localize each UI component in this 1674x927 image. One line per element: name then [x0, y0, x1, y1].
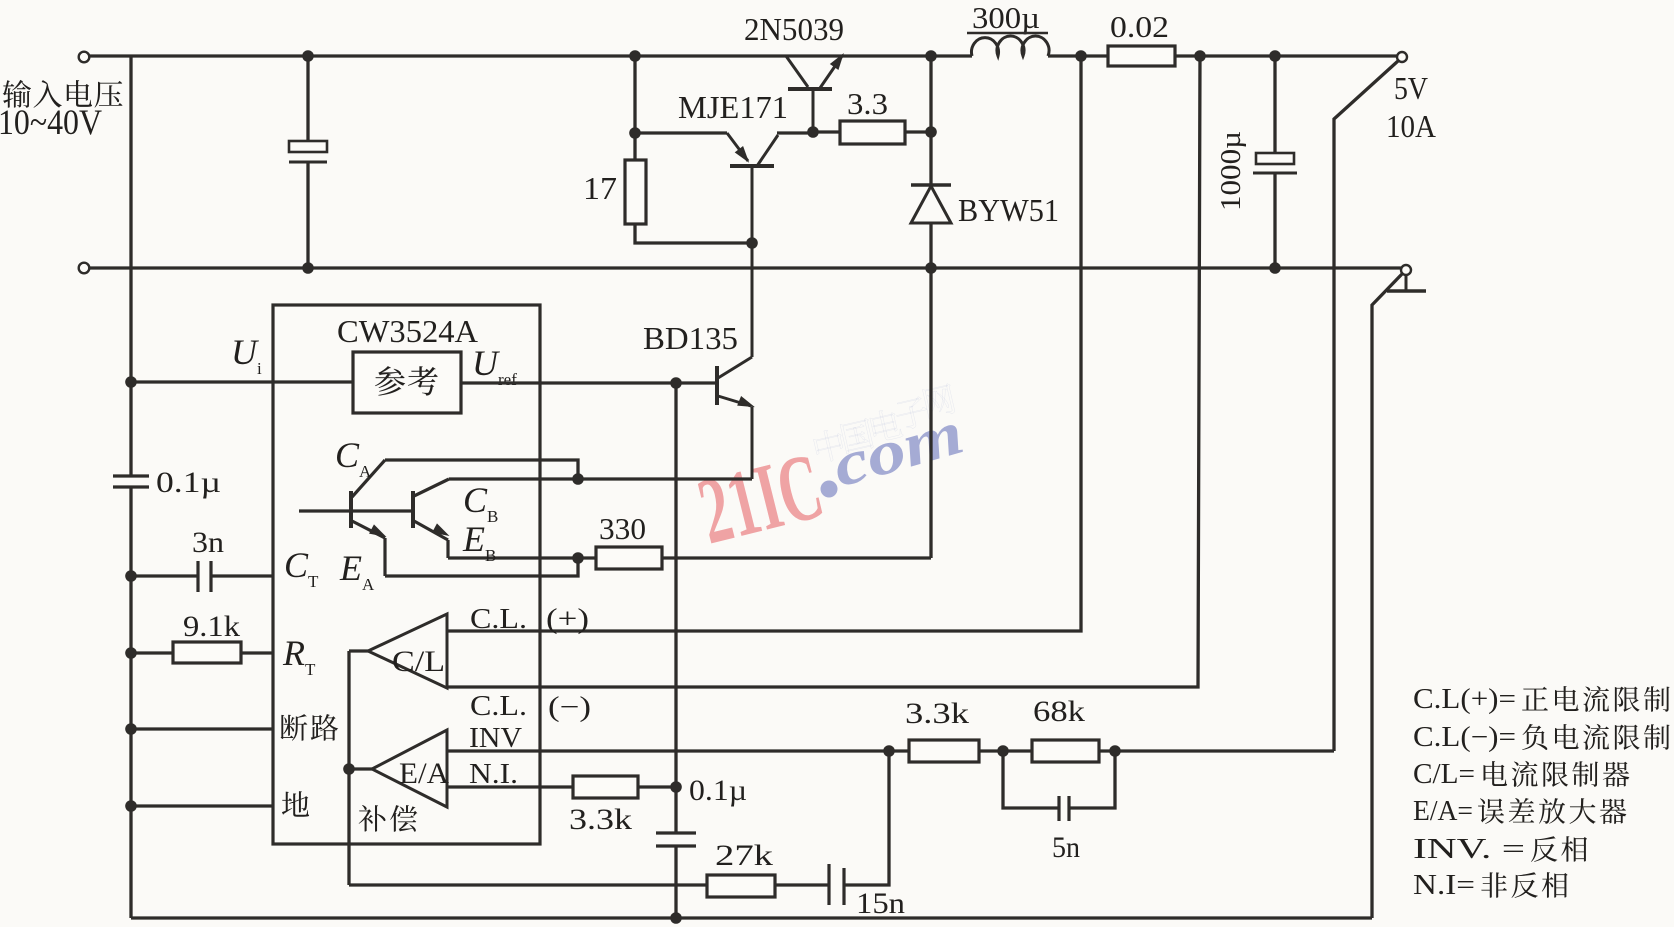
- svg-text:E/A=: E/A=: [1413, 796, 1473, 827]
- junction N.I. to Uref divider: [670, 781, 682, 793]
- resistor 3.3 (base-emitter): [813, 86, 931, 144]
- capacitor 1000u (output electrolytic): [1215, 56, 1297, 268]
- wire bottom return to output ground: [131, 916, 1372, 919]
- junction shunt right / CL- sense: [1194, 50, 1206, 62]
- resistor 3.3k (INV divider): [909, 740, 979, 762]
- transistor BD135: [717, 245, 757, 479]
- svg-text:3.3: 3.3: [847, 86, 888, 121]
- diode BYW51 (freewheel): [911, 185, 1059, 268]
- label 5V 10A: [1386, 70, 1436, 144]
- svg-text:3n: 3n: [192, 526, 224, 559]
- junction comp to INV: [883, 745, 895, 757]
- wire CA collector run: [385, 460, 578, 479]
- svg-text:300µ: 300µ: [972, 0, 1040, 35]
- wire N.I. net: [447, 785, 573, 788]
- svg-text:68k: 68k: [1033, 695, 1085, 728]
- svg-text:C.L.: C.L.: [470, 604, 527, 635]
- junction ground pin on left rail: [125, 800, 137, 812]
- svg-text:MJE171: MJE171: [678, 89, 788, 125]
- wire switch node vertical: [929, 56, 932, 185]
- svg-text:(+): (+): [546, 604, 589, 635]
- wire bottom 0V rail: [89, 266, 1402, 269]
- svg-text:330: 330: [599, 511, 646, 546]
- junction E/A output: [343, 763, 355, 775]
- junction 1000u top: [1269, 50, 1281, 62]
- resistor 0.02 (current shunt): [1108, 9, 1175, 66]
- svg-text:C/L=: C/L=: [1413, 759, 1475, 790]
- pin 地 (ground) wire: [131, 791, 309, 817]
- junction shutdown on left rail: [125, 723, 137, 735]
- inductor 300u: [967, 0, 1049, 56]
- wire diode node below rail to 330: [929, 268, 932, 558]
- wire CA/CB collectors to BD135 emitter: [578, 477, 752, 480]
- junction CT on left rail: [125, 570, 137, 582]
- wire left vertical from + rail to Ui: [129, 56, 132, 476]
- junction RT on left rail: [125, 647, 137, 659]
- junction 3.3k/68k: [997, 745, 1009, 757]
- output ground terminal: [1401, 265, 1411, 275]
- svg-text:3.3k: 3.3k: [569, 803, 632, 836]
- svg-text:(−): (−): [548, 692, 591, 723]
- transistor 2N5039 (main switch): [786, 50, 848, 132]
- resistor 3.3k (N.I.): [569, 776, 676, 836]
- wire ground return diagonal: [1372, 274, 1402, 918]
- internal transistor A: [299, 460, 413, 576]
- svg-text:27k: 27k: [715, 839, 773, 872]
- junction switch node on top rail: [925, 50, 937, 62]
- svg-text:17: 17: [583, 170, 617, 206]
- svg-text:0.02: 0.02: [1110, 9, 1169, 44]
- capacitor 3n (timing): [192, 526, 274, 592]
- svg-text:C.L.: C.L.: [470, 691, 527, 722]
- junction 17-wire / BD135 collector: [746, 237, 758, 249]
- capacitor 0.1u (soft start): [656, 833, 696, 846]
- junction 3.3 right / switch node: [925, 126, 937, 138]
- junction top rail at x635: [629, 50, 641, 62]
- input + terminal: [79, 52, 90, 63]
- svg-text:INV. =: INV. =: [1413, 834, 1525, 865]
- wire left vertical below 0.1u to bottom: [129, 487, 132, 918]
- svg-text:BD135: BD135: [643, 320, 738, 356]
- IC U1 CW3524A box: [273, 305, 540, 844]
- input voltage label 输入电压 10~40V: [0, 80, 122, 142]
- junction 68k right: [1109, 745, 1121, 757]
- junction MJE171 emitter / 2N5039 base / 3.3: [807, 126, 819, 138]
- wire 0.1u to bottom return: [674, 846, 677, 918]
- wire INV net: [447, 749, 1334, 752]
- svg-text:10~40V: 10~40V: [0, 102, 102, 142]
- label 补偿 (compensation): [359, 805, 386, 832]
- wire resistor 17 bottom to BD135 collector node: [635, 224, 752, 243]
- transistor MJE171 (PNP driver): [727, 133, 813, 357]
- junction EB/EA: [572, 552, 584, 564]
- junction inductor out / CL+ sense: [1075, 50, 1087, 62]
- resistor 68k (feedback): [1032, 740, 1099, 762]
- capacitor 5n (across 68k): [1003, 751, 1115, 864]
- resistor 27k (comp): [707, 839, 829, 897]
- svg-text:C.L(+)=: C.L(+)=: [1413, 684, 1516, 715]
- capacitor C-in (input electrolytic): [289, 56, 327, 268]
- wire EA emitter run: [385, 558, 578, 576]
- svg-text:C.L(−)=: C.L(−)=: [1413, 722, 1516, 753]
- wire CB collector run: [449, 477, 578, 480]
- pin 断路 (shutdown) wire: [131, 714, 338, 741]
- amplifier C/L (current limiter): [368, 614, 447, 688]
- svg-text:CW3524A: CW3524A: [337, 313, 478, 349]
- pin CT wire: [131, 574, 198, 577]
- wire Uref vertical divider: [674, 383, 677, 833]
- junction input cap bottom: [302, 262, 314, 274]
- svg-text:0.1µ: 0.1µ: [689, 774, 747, 807]
- junction Ui on left vertical: [125, 376, 137, 388]
- amplifier E/A (error amplifier): [372, 730, 447, 807]
- junction diode anode on 0V rail: [925, 262, 937, 274]
- svg-text:15n: 15n: [856, 887, 905, 920]
- svg-text:C/L: C/L: [392, 645, 445, 678]
- wire drop to resistor 17: [633, 56, 636, 160]
- ground symbol: [1387, 275, 1426, 291]
- wire E/A output stub: [349, 767, 372, 770]
- wire Ui input to reference: [131, 380, 353, 383]
- svg-text:BYW51: BYW51: [958, 192, 1059, 228]
- svg-text:2N5039: 2N5039: [744, 11, 844, 47]
- svg-text:3.3k: 3.3k: [905, 697, 969, 730]
- wire to MJE171: [635, 131, 727, 134]
- watermark 21IC.com / Chinese electronics net logo: [688, 383, 970, 564]
- svg-text:E/A: E/A: [399, 757, 449, 790]
- svg-text:5V: 5V: [1394, 70, 1428, 106]
- label C.L. (+): [470, 604, 589, 635]
- wire comp to 27k: [349, 883, 707, 886]
- resistor 9.1k (timing): [131, 610, 274, 663]
- wire output sense diagonal to INV divider: [1334, 61, 1398, 751]
- wire C/L output to comp rail: [349, 649, 368, 652]
- wire comp vertical: [347, 651, 350, 885]
- wire top rail (inductor to output): [1048, 54, 1399, 57]
- wire C.L.(-) sense from shunt right: [447, 56, 1200, 687]
- output 5V terminal: [1397, 52, 1407, 62]
- capacitor 15n (comp): [829, 751, 905, 920]
- wire EB emitter run: [448, 556, 579, 559]
- junction bottom return: [670, 912, 682, 924]
- resistor 17: [583, 160, 646, 224]
- svg-text:1000µ: 1000µ: [1215, 131, 1247, 211]
- legend current-limit definitions: [1413, 684, 1670, 901]
- label C.L. (-): [470, 691, 591, 723]
- svg-text:9.1k: 9.1k: [183, 610, 240, 643]
- svg-text:10A: 10A: [1386, 108, 1436, 144]
- svg-text:N.I=: N.I=: [1413, 870, 1475, 901]
- resistor 330 (emitters to 0V): [579, 511, 931, 569]
- reference block 参考: [353, 352, 461, 413]
- junction 1000u bottom: [1269, 262, 1281, 274]
- junction input cap top: [302, 50, 314, 62]
- input - terminal: [79, 263, 90, 274]
- capacitor 0.1u (Ui decoupling): [113, 466, 221, 499]
- junction Uref feedback: [670, 377, 682, 389]
- internal transistor B: [413, 479, 452, 558]
- wire C.L.(+) sense from shunt left: [447, 56, 1081, 631]
- junction CA/CB: [572, 473, 584, 485]
- svg-text:0.1µ: 0.1µ: [156, 466, 221, 499]
- junction MJE171 wire left: [629, 127, 641, 139]
- wire Uref to BD135 base: [461, 381, 717, 384]
- wire top rail (input + to inductor): [89, 54, 972, 57]
- svg-text:5n: 5n: [1052, 831, 1080, 864]
